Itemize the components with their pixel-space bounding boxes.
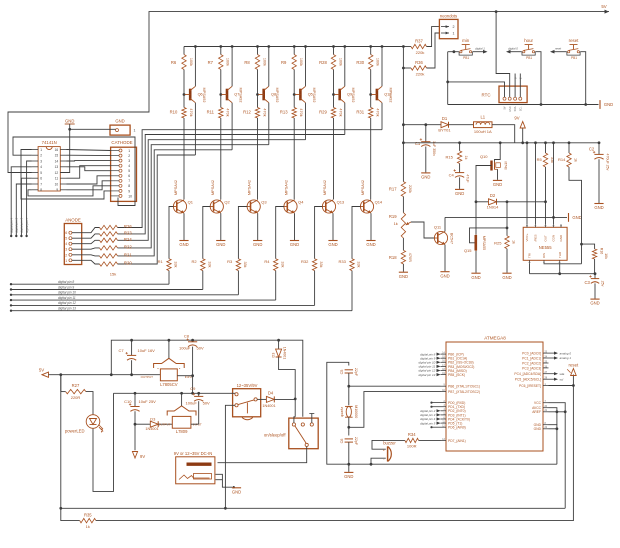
svg-text:GND: GND — [572, 215, 581, 220]
svg-text:C10: C10 — [124, 399, 132, 404]
svg-text:470k: 470k — [262, 108, 266, 116]
svg-text:Q1: Q1 — [188, 199, 194, 204]
wire PB6 net — [349, 385, 441, 387]
wire xtal loop — [327, 362, 557, 464]
resistor R8 100k — [255, 55, 259, 70]
74141 pin 6 — [32, 177, 38, 179]
transistor Q6 MPSA92 — [189, 89, 192, 101]
ATMEGA8 pin PC0_[ADC0] — [543, 352, 549, 354]
svg-text:PB5_(SCK): PB5_(SCK) — [448, 373, 465, 377]
svg-text:min: min — [462, 38, 470, 43]
svg-text:3: 3 — [128, 159, 130, 163]
svg-text:PB1: PB1 — [571, 56, 577, 60]
svg-text:GND: GND — [509, 106, 512, 112]
wire emitter — [257, 213, 259, 240]
transistor Q13 MPSA42 — [322, 200, 335, 213]
svg-text:digital pin 6: digital pin 6 — [20, 217, 24, 233]
svg-text:10: 10 — [128, 194, 132, 198]
svg-text:C5: C5 — [340, 370, 344, 375]
wire — [497, 201, 546, 203]
wire logic rail — [403, 142, 599, 144]
node rail — [526, 141, 529, 144]
wire column Q6 base/resistor line — [183, 47, 185, 55]
node — [552, 216, 555, 219]
svg-text:R18: R18 — [389, 255, 397, 260]
transistor Q10 IRF740 — [490, 161, 492, 171]
wire anode collector line — [305, 103, 307, 140]
diode D4 1N4001 — [266, 396, 274, 402]
svg-text:R27: R27 — [72, 383, 80, 388]
wire buzzer minus — [371, 458, 386, 464]
svg-text:R12: R12 — [243, 110, 251, 115]
svg-text:Q3: Q3 — [261, 199, 267, 204]
svg-text:33k: 33k — [243, 261, 247, 267]
svg-text:R22: R22 — [124, 244, 132, 249]
svg-text:R11: R11 — [207, 110, 215, 115]
NE555 pin DIS — [543, 260, 545, 263]
svg-text:digital pin 13: digital pin 13 — [418, 373, 435, 377]
74141 pin 4 — [32, 166, 38, 168]
node rail — [343, 45, 346, 48]
node input rail — [191, 339, 194, 342]
svg-text:R19: R19 — [389, 214, 397, 219]
CATHODE pin 6 — [119, 174, 122, 177]
svg-text:GND: GND — [421, 175, 430, 180]
supply 5V arrow top right — [605, 10, 610, 14]
resistor R5 33k — [545, 143, 547, 153]
ground Q13 — [328, 240, 337, 242]
svg-text:L7809: L7809 — [176, 429, 188, 434]
trimmer R19 1k — [401, 213, 405, 238]
svg-text:GND: GND — [399, 274, 408, 279]
wire digital pin 7 — [27, 161, 32, 236]
node 5V row — [59, 373, 62, 376]
node rail — [534, 141, 537, 144]
svg-text:3: 3 — [65, 248, 67, 252]
CATHODE pin 2 — [119, 154, 122, 157]
wire to bus — [351, 271, 353, 311]
svg-text:GND: GND — [604, 102, 613, 107]
svg-text:R29: R29 — [319, 110, 327, 115]
svg-text:PC0_[ADC0]: PC0_[ADC0] — [522, 352, 541, 356]
svg-text:digital pin 4: digital pin 4 — [9, 217, 13, 233]
74141 pin 9 — [60, 189, 66, 191]
svg-text:220k: 220k — [408, 185, 412, 193]
node base Q7 — [219, 93, 222, 96]
svg-text:PB7_(XTAL2/TOSC2): PB7_(XTAL2/TOSC2) — [448, 390, 480, 394]
wire emitter — [444, 245, 446, 272]
ATMEGA8 pin PB2_(/SS-OC1B) — [441, 361, 447, 363]
node — [506, 200, 509, 203]
wire min stub — [473, 51, 486, 53]
svg-text:R8: R8 — [244, 60, 250, 65]
svg-text:on/sleep/off: on/sleep/off — [264, 433, 286, 438]
node — [191, 374, 194, 377]
node row2 — [197, 392, 200, 395]
connector ANODE — [64, 224, 81, 265]
resistor R26 — [100, 225, 118, 229]
wire — [274, 398, 295, 400]
svg-text:R15: R15 — [445, 155, 453, 160]
transistor Q11 BC547 — [434, 231, 447, 244]
svg-text:powerLED: powerLED — [65, 428, 85, 433]
svg-text:GND: GND — [590, 301, 599, 306]
wire OUT feed — [545, 202, 547, 225]
wire collector drop — [220, 118, 222, 200]
capacitor C10 10uF 25V — [134, 393, 136, 406]
wire anode collector line — [194, 103, 196, 155]
NE555 pin VCC+ — [526, 224, 528, 227]
svg-text:PC2_[ADC2]: PC2_[ADC2] — [522, 361, 541, 365]
node — [446, 81, 449, 84]
svg-text:25v: 25v — [601, 281, 605, 287]
wire column Q5 base/resistor line — [293, 47, 295, 55]
svg-text:R5: R5 — [537, 157, 543, 162]
resistor R27 220R — [60, 375, 62, 392]
wire — [598, 159, 600, 203]
wire boost row — [403, 124, 441, 126]
svg-text:BYT01: BYT01 — [438, 128, 451, 133]
svg-text:Q10: Q10 — [480, 154, 488, 159]
wire — [402, 264, 404, 272]
node — [506, 227, 509, 230]
svg-text:8: 8 — [40, 188, 42, 192]
wire — [72, 228, 100, 233]
svg-text:1k: 1k — [86, 524, 90, 529]
wire digital pin 12 — [11, 304, 315, 306]
wire reset stub left — [552, 51, 567, 53]
CATHODE pin 3 — [119, 159, 122, 162]
svg-text:Q4: Q4 — [298, 199, 304, 204]
svg-text:1N914: 1N914 — [487, 205, 500, 210]
transistor Q9 MPSA92 — [338, 89, 341, 101]
wire — [427, 33, 440, 68]
node — [556, 427, 559, 430]
svg-text:quartz: quartz — [340, 407, 344, 417]
ANODE pin 3 — [69, 248, 72, 251]
ground R25 — [502, 272, 511, 274]
svg-text:reset: reset — [569, 362, 580, 367]
node — [544, 200, 547, 203]
ATMEGA8 pin PC5_[ADC5/SCL] — [543, 378, 549, 380]
node row2 — [134, 392, 137, 395]
svg-text:1N4001: 1N4001 — [262, 404, 275, 408]
svg-text:ATMEGA8: ATMEGA8 — [484, 336, 506, 341]
wire digital pin 8 — [11, 283, 169, 285]
node — [584, 103, 587, 106]
wire — [86, 392, 93, 415]
wire — [594, 283, 596, 298]
svg-text:1uF 350v: 1uF 350v — [432, 141, 436, 156]
svg-text:R1: R1 — [158, 259, 164, 264]
transistor Q12 MPSA92 — [376, 89, 379, 101]
wire gate — [476, 166, 492, 202]
svg-text:1k: 1k — [464, 155, 468, 159]
74141 pin 12 — [60, 172, 66, 174]
wire R35 branch — [61, 508, 80, 520]
inductor L1 100uH — [474, 122, 493, 128]
ground Q15 — [471, 272, 480, 274]
svg-text:6: 6 — [40, 177, 42, 181]
wire 9V row2 — [114, 392, 231, 394]
wire net K7 — [67, 181, 111, 190]
NE555 pin OUT — [545, 224, 547, 227]
svg-text:9: 9 — [56, 188, 58, 192]
svg-text:digital pin 7: digital pin 7 — [25, 217, 29, 233]
wire wiper to Q11 — [411, 222, 435, 238]
svg-text:22pF: 22pF — [354, 368, 358, 377]
svg-text:470k: 470k — [299, 108, 303, 116]
resistor R3 33k — [236, 259, 240, 271]
transistor Q5 MPSA92 — [299, 89, 302, 101]
svg-text:R2: R2 — [191, 259, 197, 264]
wire hour right — [535, 52, 541, 105]
net stub PD1 — [432, 406, 441, 408]
svg-text:MPSA42: MPSA42 — [285, 180, 289, 195]
svg-text:PB1: PB1 — [526, 56, 532, 60]
wire 555 ground rail — [530, 273, 596, 275]
wire to bus — [314, 271, 316, 306]
svg-text:GND: GND — [179, 242, 188, 247]
svg-text:MPSA92: MPSA92 — [312, 88, 316, 103]
net stub analog 1 — [549, 357, 555, 359]
svg-text:GND: GND — [559, 234, 563, 242]
svg-text:7: 7 — [128, 179, 130, 183]
wire emitter — [294, 213, 296, 240]
wire net K3 — [67, 160, 111, 162]
svg-text:100k: 100k — [376, 58, 380, 66]
wire — [348, 373, 350, 405]
wire drain — [495, 143, 501, 162]
svg-text:11: 11 — [55, 177, 59, 181]
svg-text:digital pin 12: digital pin 12 — [58, 301, 76, 305]
ground C3 — [590, 298, 599, 300]
crystal quartz M10000 — [346, 406, 351, 417]
node PB6 net — [347, 385, 350, 388]
resistor R22 — [100, 246, 118, 250]
svg-text:C7: C7 — [118, 348, 124, 353]
svg-text:470k: 470k — [226, 108, 230, 116]
svg-text:10uF 16V: 10uF 16V — [138, 348, 156, 353]
ground Q2 — [216, 240, 225, 242]
transistor Q2 MPSA42 — [210, 200, 223, 213]
wire RTC scl stub — [519, 74, 521, 98]
svg-text:CATHODE: CATHODE — [111, 140, 132, 145]
resistor R11 470k — [219, 108, 223, 119]
svg-text:PC5_[ADC5/SCL]: PC5_[ADC5/SCL] — [515, 378, 541, 382]
wire bottom rail 5V — [61, 375, 565, 509]
svg-text:GND: GND — [471, 275, 480, 280]
ATMEGA8 pin PD1_(TXD) — [441, 406, 447, 408]
wire anode collector line — [268, 103, 270, 145]
svg-text:GND: GND — [455, 191, 464, 196]
transistor Q14 MPSA42 — [360, 200, 373, 213]
ground flag buttons — [599, 100, 601, 109]
wire min gnd drop — [447, 52, 449, 105]
svg-text:100uH 1A: 100uH 1A — [474, 129, 492, 134]
svg-text:D3: D3 — [150, 416, 156, 421]
voltage regulator IC2 L7809 — [167, 406, 196, 416]
ATMEGA8 pin PD5_(T1) — [441, 422, 447, 424]
transistor Q8 MPSA92 — [262, 89, 265, 101]
svg-text:1N4001: 1N4001 — [145, 427, 158, 431]
svg-text:5: 5 — [40, 171, 42, 175]
connector GND box — [110, 125, 130, 135]
wire base — [238, 207, 247, 259]
capacitor C2 470uF 25v — [598, 143, 600, 155]
svg-text:470R: 470R — [408, 253, 412, 262]
resistor R16 10k — [592, 249, 596, 259]
svg-text:9V: 9V — [140, 454, 145, 459]
svg-text:3: 3 — [40, 159, 42, 163]
svg-text:PB6_(XTAL1/TOSC1): PB6_(XTAL1/TOSC1) — [448, 385, 480, 389]
svg-text:1k: 1k — [511, 240, 515, 244]
svg-text:1N4001: 1N4001 — [282, 347, 286, 360]
node rail — [381, 45, 384, 48]
wire base — [203, 207, 210, 259]
svg-text:M10000: M10000 — [354, 405, 358, 418]
net stub sda — [549, 373, 555, 375]
svg-text:10: 10 — [55, 182, 59, 186]
svg-text:MPSA92: MPSA92 — [388, 88, 392, 103]
svg-text:D4: D4 — [268, 390, 274, 395]
svg-text:DIS: DIS — [542, 253, 546, 258]
svg-text:100R: 100R — [407, 443, 417, 448]
svg-text:100k: 100k — [299, 58, 303, 66]
ATMEGA8 pin AREF — [543, 411, 549, 413]
node row2 — [180, 392, 183, 395]
node input rail — [168, 339, 171, 342]
wire — [492, 125, 515, 143]
svg-text:analog 1: analog 1 — [560, 356, 572, 360]
supply 9V arrow — [522, 128, 524, 143]
wire control net — [445, 216, 567, 218]
svg-text:5: 5 — [65, 237, 67, 241]
resistor R34 100R — [405, 438, 419, 442]
CATHODE pin 4 — [119, 164, 122, 167]
svg-text:buzzer: buzzer — [383, 441, 396, 446]
node — [294, 398, 297, 401]
net stub digital pin 8 — [437, 353, 441, 356]
svg-text:1k: 1k — [574, 158, 578, 162]
wire collector drop — [370, 118, 372, 200]
wire HV rail — [184, 46, 403, 48]
svg-text:2: 2 — [65, 253, 67, 257]
node base Q9 — [332, 93, 335, 96]
ATMEGA8 pin PB7_(XTAL2/TOSC2) — [441, 391, 447, 393]
svg-text:R21: R21 — [124, 252, 132, 257]
wire — [72, 260, 100, 264]
wire reset net — [549, 385, 574, 387]
wire PB7 net — [349, 392, 441, 428]
node digital pin 7 — [25, 235, 27, 237]
svg-text:digital pin 11: digital pin 11 — [58, 296, 76, 300]
svg-text:100k: 100k — [189, 58, 193, 66]
svg-text:reset: reset — [555, 46, 561, 50]
node rail — [544, 141, 547, 144]
wire anode net — [118, 145, 269, 248]
capacitor C8 100uF 50V — [192, 340, 194, 342]
wire to bus — [202, 271, 204, 290]
wire — [183, 70, 185, 108]
wire — [594, 259, 596, 274]
svg-text:Q14: Q14 — [375, 199, 383, 204]
wire net K1 — [67, 150, 111, 151]
74141 pin 3 — [32, 160, 38, 162]
wire — [198, 401, 200, 424]
node rail — [304, 45, 307, 48]
wire emitter — [220, 213, 222, 240]
svg-text:AREF: AREF — [532, 410, 541, 414]
74141 pin 7 — [32, 183, 38, 185]
svg-text:VCC: VCC — [534, 401, 542, 405]
ground C4 — [455, 188, 464, 190]
wire to bus — [168, 271, 170, 285]
transistor Q7 MPSA92 — [226, 89, 229, 101]
transistor Q1 MPSA42 — [173, 200, 186, 213]
wire anode collector line — [231, 103, 233, 150]
resistor R31 470k — [369, 108, 373, 119]
svg-text:GND: GND — [115, 118, 124, 123]
node rail — [521, 141, 524, 144]
svg-text:digital 1: digital 1 — [475, 46, 485, 50]
wire — [220, 70, 222, 108]
svg-text:OUTPUT: OUTPUT — [158, 422, 171, 426]
svg-text:GND: GND — [440, 273, 449, 278]
wire R34 left to buzzer — [372, 440, 405, 449]
node — [370, 463, 373, 466]
transistor Q3 MPSA42 — [247, 200, 260, 213]
node — [558, 272, 561, 275]
wire button ground rail — [448, 104, 599, 106]
wire emitter to rail — [194, 47, 196, 87]
wire — [293, 70, 295, 108]
svg-text:GND: GND — [290, 242, 299, 247]
svg-text:R4: R4 — [264, 259, 270, 264]
ATMEGA8 pin PC6_[/RESET] — [543, 385, 549, 387]
wire base — [276, 207, 284, 259]
svg-text:220k: 220k — [416, 71, 425, 76]
wire D2 net — [476, 201, 489, 203]
svg-text:Q2: Q2 — [224, 199, 230, 204]
ground C2 — [594, 203, 603, 205]
svg-text:5V: 5V — [601, 4, 606, 9]
wire GND net — [70, 128, 116, 130]
svg-text:1: 1 — [128, 149, 130, 153]
svg-text:/RES: /RES — [534, 234, 538, 241]
wire switch common down — [218, 447, 307, 463]
IC U1 ATMEGA8 — [446, 342, 543, 451]
resistor R35 1k — [80, 518, 96, 522]
svg-text:47uF: 47uF — [465, 174, 469, 183]
node rail — [598, 141, 601, 144]
74141 pin 16 — [60, 149, 66, 151]
node — [564, 410, 567, 413]
svg-text:+: + — [383, 448, 385, 452]
wire RTC sda stub — [514, 74, 516, 98]
svg-text:C8: C8 — [184, 333, 190, 338]
svg-text:C1: C1 — [415, 141, 421, 146]
wire LED loop vertical — [93, 393, 114, 491]
wire collector drop — [257, 118, 259, 200]
74141 pin 1 — [32, 149, 38, 151]
svg-text:R7: R7 — [208, 60, 214, 65]
svg-text:THR: THR — [558, 251, 562, 258]
svg-text:33k: 33k — [174, 261, 178, 267]
svg-text:1: 1 — [453, 32, 455, 36]
wire 5V row — [49, 374, 161, 376]
wire emitter to rail — [231, 47, 233, 87]
